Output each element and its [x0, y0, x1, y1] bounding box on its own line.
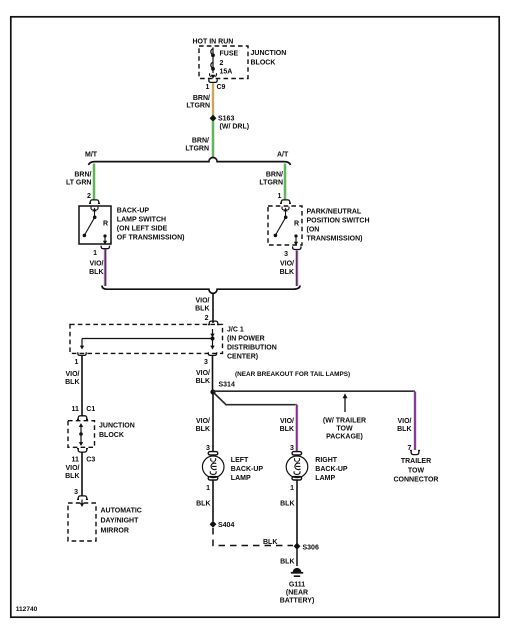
junction block internal wire	[80, 426, 82, 443]
splice S163	[210, 115, 217, 122]
svg-text:BLK: BLK	[280, 500, 294, 507]
svg-text:BACK-UP: BACK-UP	[231, 466, 264, 473]
svg-text:DISTRIBUTION: DISTRIBUTION	[227, 345, 277, 352]
svg-text:LTGRN: LTGRN	[185, 145, 209, 152]
wire BLK right lamp to S306	[296, 480, 298, 544]
svg-text:(IN POWER: (IN POWER	[227, 336, 265, 343]
svg-text:BLK: BLK	[196, 426, 210, 433]
switch exit arrow + dish pin 3	[294, 242, 298, 246]
svg-text:CENTER): CENTER)	[227, 354, 258, 361]
svg-text:BRN/: BRN/	[193, 95, 210, 102]
svg-text:S404: S404	[218, 522, 234, 529]
svg-text:PACKAGE): PACKAGE)	[326, 433, 363, 440]
svg-text:MIRROR: MIRROR	[101, 527, 129, 534]
wire trailer drop (violet)	[413, 392, 416, 451]
svg-text:BATTERY): BATTERY)	[280, 598, 315, 605]
svg-text:BLK: BLK	[89, 269, 103, 276]
svg-text:BLK: BLK	[196, 378, 210, 385]
svg-text:BLOCK: BLOCK	[251, 59, 276, 66]
svg-text:(W/ DRL): (W/ DRL)	[220, 124, 250, 131]
svg-text:2: 2	[87, 193, 91, 200]
left back-up lamp	[208, 452, 218, 455]
svg-text:OF TRANSMISSION): OF TRANSMISSION)	[117, 235, 185, 242]
svg-text:1: 1	[206, 84, 210, 91]
svg-text:2: 2	[220, 60, 224, 67]
wire S314 down to left lamp (black)	[212, 392, 214, 452]
svg-text:BLK: BLK	[196, 500, 210, 507]
J/C 1 box (dashed)	[70, 324, 223, 353]
wire BRN/LTGRN (green) S163 to rail	[211, 121, 214, 158]
connector dish at back-up lamp switch pin 2	[89, 200, 100, 204]
svg-text:3: 3	[74, 489, 78, 496]
svg-text:1: 1	[206, 485, 210, 492]
svg-text:LTGRN: LTGRN	[186, 102, 210, 109]
wire BLK S306 to ground	[296, 549, 298, 566]
svg-text:S314: S314	[219, 382, 235, 389]
splice S404	[210, 521, 217, 528]
svg-text:3: 3	[290, 445, 294, 452]
svg-text:C9: C9	[217, 84, 226, 91]
inline connector C1	[77, 416, 88, 420]
svg-text:HOT IN RUN: HOT IN RUN	[193, 39, 234, 46]
svg-text:(NEAR BREAKOUT FOR TAIL LAMPS): (NEAR BREAKOUT FOR TAIL LAMPS)	[235, 371, 350, 378]
svg-text:BLK: BLK	[65, 379, 79, 386]
svg-text:TRAILER: TRAILER	[401, 458, 431, 465]
svg-text:FUSE: FUSE	[220, 50, 239, 57]
svg-text:2: 2	[205, 315, 209, 322]
mirror entry dish	[77, 496, 88, 500]
svg-text:11: 11	[72, 406, 80, 413]
inline connector C3	[77, 449, 88, 453]
connector dish at park/neutral switch pin 1	[280, 200, 291, 204]
fuse F2 15A	[211, 48, 213, 74]
svg-text:(NEAR: (NEAR	[286, 590, 308, 597]
svg-text:RIGHT: RIGHT	[315, 457, 338, 464]
svg-text:LAMP: LAMP	[315, 475, 335, 482]
park/neutral position switch (dashed box)	[268, 206, 302, 245]
ground G111	[293, 568, 302, 572]
svg-text:JUNCTION: JUNCTION	[251, 50, 287, 57]
junction block (fuse) box	[199, 46, 248, 79]
svg-text:BLOCK: BLOCK	[99, 432, 124, 439]
splice S306	[294, 543, 301, 550]
svg-text:CONNECTOR: CONNECTOR	[394, 476, 439, 483]
svg-text:TOW: TOW	[336, 425, 353, 432]
svg-text:BLK: BLK	[65, 473, 79, 480]
svg-text:VIO/: VIO/	[65, 371, 79, 378]
svg-text:M/T: M/T	[85, 152, 98, 159]
svg-text:AUTOMATIC: AUTOMATIC	[101, 507, 142, 514]
svg-text:C1: C1	[86, 406, 95, 413]
svg-text:BLK: BLK	[397, 426, 411, 433]
wire right lamp drop (violet)	[295, 405, 298, 451]
wire stem to J/C 1 pin 2	[212, 293, 214, 323]
svg-text:(W/ TRAILER: (W/ TRAILER	[323, 417, 366, 424]
svg-text:J/C 1: J/C 1	[227, 327, 244, 334]
svg-text:VIO/: VIO/	[280, 260, 294, 267]
svg-text:PARK/NEUTRAL: PARK/NEUTRAL	[307, 209, 362, 216]
wire S314 to trailer connector (black horizontal)	[213, 390, 415, 392]
automatic day/night mirror box	[68, 503, 96, 541]
svg-text:R: R	[103, 220, 108, 227]
svg-text:VIO/: VIO/	[196, 418, 210, 425]
middle rail wire with down hump	[102, 286, 300, 294]
J/C 1 internal bus	[82, 338, 213, 340]
svg-text:VIO/: VIO/	[89, 260, 103, 267]
svg-text:3: 3	[206, 445, 210, 452]
trailer tow connector dish	[410, 451, 420, 455]
svg-text:BRN/: BRN/	[74, 172, 91, 179]
svg-text:BACK-UP: BACK-UP	[315, 466, 348, 473]
switch exit arrow + dish pin 1	[103, 241, 107, 245]
svg-text:3: 3	[204, 359, 208, 366]
svg-text:TOW: TOW	[408, 467, 425, 474]
svg-text:R: R	[294, 220, 299, 227]
svg-text:VIO/: VIO/	[280, 418, 294, 425]
w/ trailer tow package arrow	[344, 396, 346, 412]
svg-text:BLK: BLK	[280, 426, 294, 433]
svg-text:DAY/NIGHT: DAY/NIGHT	[101, 517, 140, 524]
wire VIO/BLK left (violet)	[104, 250, 107, 287]
fuse exit arrow + cup	[209, 73, 216, 76]
svg-text:BLK: BLK	[195, 306, 209, 313]
svg-text:JUNCTION: JUNCTION	[99, 422, 135, 429]
wire VIO/BLK right (violet)	[295, 251, 298, 287]
svg-text:G111: G111	[289, 582, 305, 589]
svg-text:BRN/: BRN/	[192, 138, 209, 145]
svg-text:BLK: BLK	[280, 269, 294, 276]
svg-text:1: 1	[75, 359, 79, 366]
top rail wire with hump	[89, 158, 291, 166]
svg-text:VIO/: VIO/	[397, 418, 411, 425]
dashed BLK run S404 to S306	[213, 528, 293, 546]
svg-text:S163: S163	[218, 116, 234, 123]
wire VIO/BLK to mirror (black)	[81, 453, 83, 496]
svg-text:LAMP SWITCH: LAMP SWITCH	[117, 217, 166, 224]
svg-text:S306: S306	[303, 544, 319, 551]
svg-text:LEFT: LEFT	[231, 457, 249, 464]
svg-text:LAMP: LAMP	[231, 475, 251, 482]
junction block (lower) dashed box	[68, 421, 95, 448]
svg-text:15A: 15A	[220, 68, 233, 75]
svg-text:3: 3	[284, 251, 288, 258]
wire BRN/LTGRN (tan) C9 to S163	[211, 83, 214, 116]
right back-up lamp	[292, 452, 302, 455]
svg-text:BRN/: BRN/	[266, 172, 283, 179]
svg-text:BLK: BLK	[280, 558, 294, 565]
svg-text:LTGRN: LTGRN	[259, 180, 283, 187]
svg-text:1: 1	[278, 193, 282, 200]
wire BLK left lamp to S404	[212, 480, 214, 521]
svg-text:A/T: A/T	[277, 152, 289, 159]
svg-text:VIO/: VIO/	[65, 465, 79, 472]
wire BRN/LT GRN left branch (green)	[92, 164, 95, 200]
back-up lamp switch S (solid box)	[79, 206, 111, 244]
svg-text:BLK: BLK	[263, 539, 277, 546]
wire S314 diagonal + horizontal to right lamp	[214, 393, 297, 405]
svg-text:C3: C3	[86, 456, 95, 463]
connector C9 dish	[209, 79, 217, 82]
svg-text:LT GRN: LT GRN	[66, 180, 92, 187]
svg-text:112740: 112740	[16, 606, 38, 613]
wire VIO/BLK to junction block (black)	[81, 356, 83, 416]
wire BRN/LTGRN right branch (green)	[283, 164, 286, 200]
svg-text:11: 11	[72, 456, 80, 463]
J/C 1 exit dish pin 1	[78, 352, 86, 355]
svg-text:BACK-UP: BACK-UP	[117, 208, 150, 215]
J/C 1 entry dish + arrow	[208, 321, 219, 325]
svg-text:POSITION SWITCH: POSITION SWITCH	[307, 218, 370, 225]
svg-text:(ON LEFT SIDE: (ON LEFT SIDE	[117, 226, 168, 233]
wire VIO/BLK J/C1 pin3 to S314	[212, 356, 214, 390]
svg-text:1: 1	[290, 485, 294, 492]
svg-text:(ON: (ON	[307, 227, 320, 234]
svg-text:VIO/: VIO/	[196, 370, 210, 377]
svg-text:VIO/: VIO/	[195, 298, 209, 305]
J/C 1 exit dish pin 3	[208, 352, 216, 355]
svg-text:TRANSMISSION): TRANSMISSION)	[307, 236, 363, 243]
svg-text:1: 1	[93, 250, 97, 257]
